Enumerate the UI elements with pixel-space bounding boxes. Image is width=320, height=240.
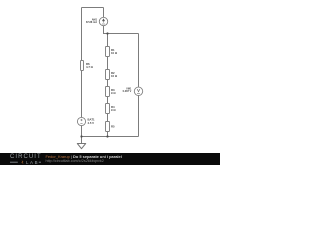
svg-text:LAB: LAB	[26, 160, 39, 165]
resistor R4	[106, 104, 110, 114]
wire bottom horizontal	[82, 136, 139, 138]
footer title	[46, 154, 122, 159]
ground	[77, 144, 85, 149]
wire R1 to R2	[107, 57, 109, 70]
svg-text:4.7 Ω: 4.7 Ω	[86, 65, 94, 69]
node bottom column junction dot	[106, 135, 108, 137]
footer url	[46, 159, 104, 163]
wire left rail upper	[81, 8, 83, 61]
wire column node to R1	[107, 34, 109, 47]
wire right rail upper	[138, 34, 140, 88]
svg-text:4.5 V: 4.5 V	[88, 121, 95, 125]
wire R2 to R3	[107, 80, 109, 87]
svg-text:0.287 V: 0.287 V	[123, 90, 132, 93]
svg-text:R5: R5	[111, 124, 115, 128]
wire right rail lower	[138, 96, 140, 137]
svg-text:10 Ω: 10 Ω	[111, 51, 118, 55]
resistor R1	[106, 47, 110, 57]
footer bar	[0, 153, 220, 165]
wire R3 to R4	[107, 97, 109, 104]
node A junction dot	[106, 32, 108, 34]
logo CircuitLab	[10, 154, 42, 160]
wire R4 to R5	[107, 114, 109, 122]
wire R5 to bottom	[107, 132, 109, 137]
svg-text:9 Ω: 9 Ω	[111, 91, 116, 95]
voltmeter VM1	[134, 87, 142, 95]
wire ammeter bottom jog	[104, 26, 108, 34]
node ground junction dot	[80, 135, 82, 137]
wire left rail mid	[81, 71, 83, 118]
wire left rail lower	[81, 126, 83, 137]
resistor R5	[106, 122, 110, 132]
battery BAT1	[77, 117, 85, 125]
wire top horizontal	[82, 7, 104, 9]
svg-text:87.88 mA: 87.88 mA	[86, 21, 97, 24]
wire ground stem	[81, 137, 83, 144]
ammeter AM1	[99, 17, 107, 25]
wire ammeter top stem	[103, 8, 105, 18]
svg-text:10 Ω: 10 Ω	[111, 74, 118, 78]
wire node bus to right rail	[108, 33, 139, 35]
resistor R6 (left, 4.7 Ohm)	[81, 61, 84, 71]
svg-text:9 Ω: 9 Ω	[111, 108, 116, 112]
resistor R2	[106, 70, 110, 80]
resistor R3	[106, 87, 110, 97]
